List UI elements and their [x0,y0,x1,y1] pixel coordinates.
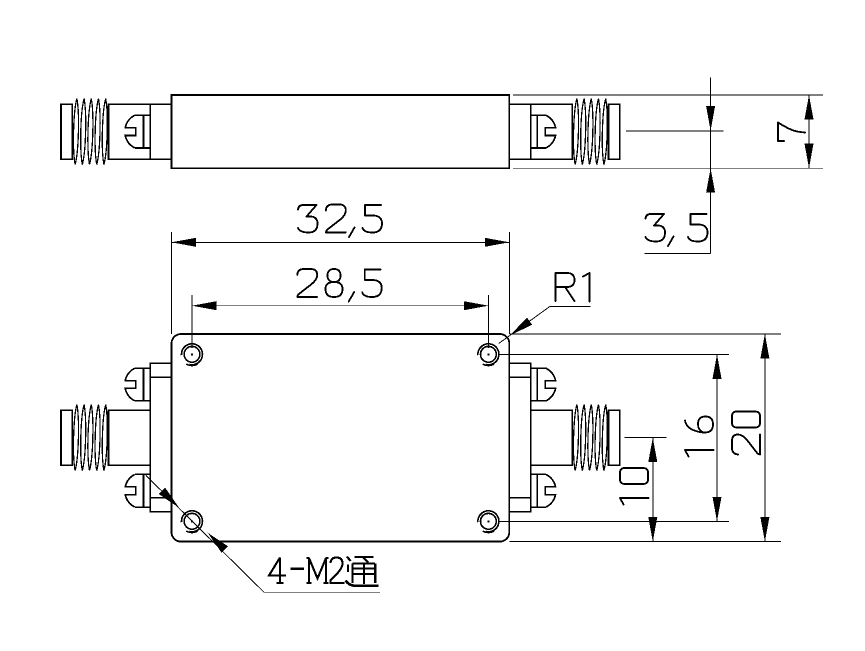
dimension 3,5 arrows [706,106,715,131]
right connector thread (plan) [573,405,607,471]
mounting hole bottom-right [478,511,499,533]
right connector end cap (plan) [609,410,620,465]
right connector end cap (side view) [609,104,620,159]
mounting hole top-right [478,344,499,366]
right bottom flange screw [531,474,556,507]
left connector thread (side view) [73,99,107,165]
left bottom flange screw [125,474,150,507]
dim 32,5 extension lines [172,232,510,334]
extension line bottom for dim 7 [513,167,823,169]
dim 32,5 arrows [172,238,197,247]
mounting hole bottom-left [182,511,203,533]
right flange step (side view) [509,104,530,159]
right connector body (plan) [531,410,573,465]
left flange plate (plan) [150,363,171,512]
left connector end cap (plan) [61,410,72,465]
main body (side view) [172,95,510,168]
right screw slot detail (side view) [531,115,556,148]
left connector end cap (side view) [61,104,72,159]
label CJK tong [346,557,379,586]
dimension 7 arrows [805,95,814,120]
dimension text 3,5 [646,214,708,246]
dim 28,5 line [192,305,488,307]
dim 10 centre extension [625,437,667,439]
dimension text 32,5 [298,205,382,238]
body outline (plan) [172,334,510,542]
left connector thread (plan) [73,405,107,471]
dim 28,5 arrows [192,301,217,310]
dimension text 7 [778,123,805,142]
left flange step (side view) [150,104,171,159]
dimension text 16 [685,417,714,457]
dimension text 20 [732,412,760,455]
extension line top for dim 7 [513,94,823,96]
dim 16 line [716,354,718,521]
left screw slot detail (side view) [125,115,150,148]
left connector body (plan) [109,410,151,465]
right top flange screw [531,368,556,401]
left connector nut body (side view) [109,104,151,159]
right connector thread (side view) [573,99,607,165]
left top flange screw [125,368,150,401]
right flange plate (plan) [509,363,530,512]
right connector nut body (side view) [531,104,573,159]
dim 16 extension lines [499,354,729,521]
dim 20 line [764,334,766,542]
dim 28,5 extension lines [192,295,488,348]
mounting hole top-left [182,344,203,366]
leader R1 [499,307,591,344]
dimension text 28,5 [297,269,382,302]
dim 32,5 line [172,241,510,243]
dim 10 line [652,438,654,542]
centre line of side view [626,130,724,132]
leader 4-M2 [146,476,380,593]
dimension 7 line [808,95,810,168]
label 4-M2 [269,558,345,584]
dim 20 extension lines [509,334,781,542]
dimension text 10 [620,468,649,505]
label R1 [556,273,590,302]
dimension 3,5 line [645,78,711,254]
